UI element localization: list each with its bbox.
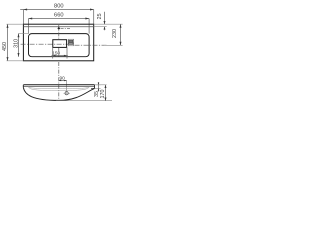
faucet dash-dot line right [61, 27, 70, 29]
drain rectangle plan [53, 40, 67, 48]
dimension 800 line [20, 9, 94, 11]
extension line left 800 [22, 10, 24, 25]
extension line right 660 [88, 19, 90, 34]
extension 230 bottom [104, 44, 123, 46]
dimension 150 extension left [52, 47, 54, 58]
drain label text row1 [69, 40, 73, 42]
dimension 230 arrows [120, 24, 122, 45]
svg-text:450: 450 [2, 42, 8, 51]
extension 450 bottom [7, 60, 24, 62]
svg-text:660: 660 [54, 13, 64, 19]
svg-text:170: 170 [100, 90, 106, 99]
svg-text:25: 25 [97, 13, 103, 19]
dimension 25 extension bottom [94, 26, 107, 28]
dimension 25 lower stub [104, 27, 106, 31]
dimension 90 line [59, 80, 67, 82]
extension line left 660 [28, 19, 30, 34]
dimension 150 extension right [66, 47, 68, 58]
drain label box [68, 39, 74, 46]
dimension 170 extensions [56, 100, 112, 102]
dimension 150 arrows [53, 55, 67, 57]
drain circle front view [65, 92, 68, 95]
extension 450 top [7, 23, 24, 25]
front view slab top [23, 84, 94, 86]
dimension 25 line [104, 12, 106, 24]
dimension 170 line [105, 85, 107, 101]
counter inner back edge line 25mm [23, 26, 93, 28]
svg-text:800: 800 [54, 3, 64, 9]
drain label text row2 [69, 43, 73, 45]
dimension 90 arrows [59, 80, 67, 82]
svg-text:90: 90 [59, 76, 65, 81]
basin rounded rect plan view [29, 34, 90, 57]
extension 170 top [96, 84, 107, 86]
bowl inner curve 2 [29, 87, 90, 91]
dimension 450 line [7, 24, 9, 61]
dimension 660 line [29, 18, 90, 20]
faucet hole diamond symbol [57, 27, 60, 30]
dimension 800 arrows [23, 9, 93, 11]
front view left edge [22, 85, 24, 87]
dimension 230 line [120, 24, 122, 45]
extension 310 top [18, 33, 29, 35]
drain vertical extension front [66, 81, 68, 93]
dimension 25 extension top [94, 23, 123, 25]
dimension 310 line [18, 34, 20, 57]
dimension 310 arrows [18, 34, 20, 57]
counter outline plan view [23, 24, 93, 61]
dimension 35 extensions [95, 84, 101, 86]
dimension 660 arrows [29, 18, 90, 20]
drain circle cross ticks [64, 92, 71, 94]
dimension 25 arrow [104, 21, 106, 24]
dimension 35 line with outside arrows [98, 82, 100, 92]
bowl inner curve 1 [29, 87, 90, 89]
extension line right 800 [93, 10, 95, 25]
dimension 450 arrows [7, 24, 9, 61]
dimension 170 arrows [105, 85, 107, 101]
svg-text:310: 310 [14, 39, 20, 48]
front view slab bottom [23, 86, 94, 88]
svg-text:150: 150 [52, 51, 60, 56]
vertical centerline plan [58, 25, 60, 40]
dimension 90 drain offset : centerline between views [58, 62, 60, 100]
front view right edge [94, 85, 96, 89]
dimension 150 line [52, 55, 68, 57]
bowl outer curve [23, 87, 94, 100]
front apron right short line [91, 87, 95, 89]
svg-text:230: 230 [112, 29, 118, 38]
horizontal centerline plan [21, 43, 75, 45]
